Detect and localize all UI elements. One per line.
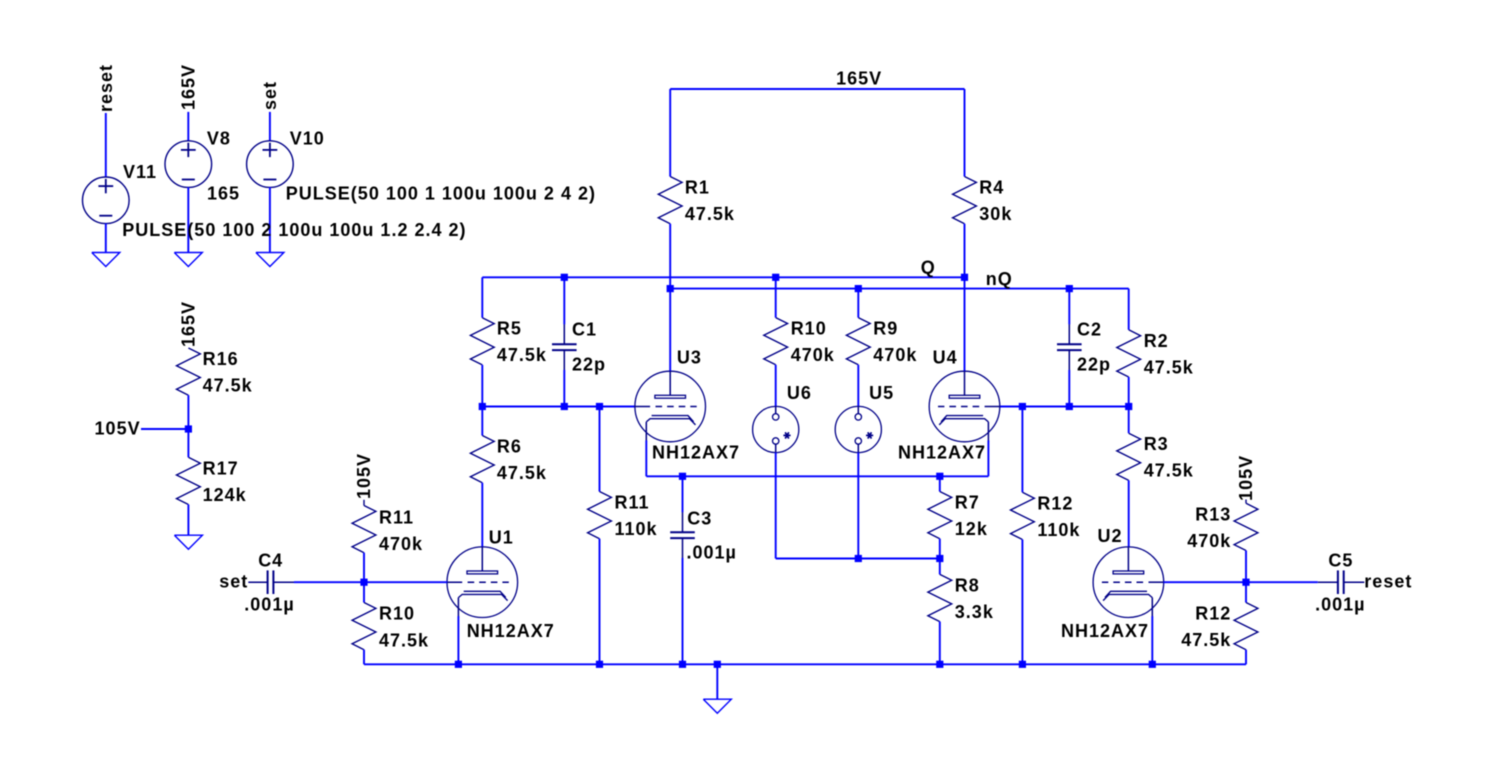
svg-text:165V: 165V <box>179 64 199 110</box>
svg-text:C5: C5 <box>1328 550 1353 570</box>
svg-text:47.5k: 47.5k <box>1144 461 1194 481</box>
svg-text:U6: U6 <box>787 383 812 403</box>
svg-text:NH12AX7: NH12AX7 <box>467 621 555 641</box>
svg-text:R9: R9 <box>873 319 898 339</box>
svg-text:30k: 30k <box>979 204 1012 224</box>
svg-text:R17: R17 <box>203 458 239 478</box>
svg-text:NH12AX7: NH12AX7 <box>1061 621 1149 641</box>
svg-text:C4: C4 <box>258 550 283 570</box>
svg-text:reset: reset <box>1364 571 1412 591</box>
svg-text:U4: U4 <box>933 348 958 368</box>
svg-text:R4: R4 <box>979 178 1004 198</box>
svg-text:R10: R10 <box>379 604 415 624</box>
svg-text:47.5k: 47.5k <box>1181 630 1231 650</box>
svg-text:Q: Q <box>921 258 936 278</box>
svg-text:.001µ: .001µ <box>687 543 737 563</box>
svg-text:110k: 110k <box>1037 520 1080 540</box>
svg-text:C3: C3 <box>687 509 712 529</box>
svg-text:R8: R8 <box>955 575 980 595</box>
svg-text:470k: 470k <box>379 534 423 554</box>
svg-text:R12: R12 <box>1037 493 1073 513</box>
svg-text:105V: 105V <box>95 418 141 438</box>
svg-text:C1: C1 <box>572 320 597 340</box>
svg-text:47.5k: 47.5k <box>497 463 547 483</box>
svg-text:47.5k: 47.5k <box>203 376 253 396</box>
svg-text:R12: R12 <box>1195 604 1231 624</box>
svg-text:U3: U3 <box>677 348 702 368</box>
svg-text:V10: V10 <box>290 129 325 149</box>
svg-text:R2: R2 <box>1144 331 1169 351</box>
svg-text:470k: 470k <box>873 345 917 365</box>
svg-text:R16: R16 <box>203 349 239 369</box>
svg-text:R3: R3 <box>1144 434 1169 454</box>
svg-text:NH12AX7: NH12AX7 <box>652 443 740 463</box>
svg-text:V11: V11 <box>123 162 157 182</box>
svg-text:reset: reset <box>96 64 116 112</box>
svg-text:U5: U5 <box>869 383 894 403</box>
svg-text:105V: 105V <box>354 453 374 499</box>
svg-text:V8: V8 <box>207 129 231 149</box>
svg-text:470k: 470k <box>791 345 835 365</box>
svg-text:R1: R1 <box>685 178 710 198</box>
svg-text:47.5k: 47.5k <box>379 631 429 651</box>
svg-text:22p: 22p <box>572 355 606 375</box>
svg-text:set: set <box>219 571 248 591</box>
svg-text:set: set <box>260 81 280 110</box>
svg-text:105V: 105V <box>1236 455 1256 501</box>
svg-text:470k: 470k <box>1187 531 1231 551</box>
svg-text:47.5k: 47.5k <box>497 345 547 365</box>
svg-text:NH12AX7: NH12AX7 <box>898 443 986 463</box>
svg-text:R5: R5 <box>497 319 522 339</box>
svg-text:.001µ: .001µ <box>244 594 294 614</box>
svg-text:110k: 110k <box>615 519 658 539</box>
svg-text:R11: R11 <box>615 493 650 513</box>
svg-text:47.5k: 47.5k <box>685 204 735 224</box>
svg-text:R6: R6 <box>497 437 522 457</box>
svg-text:47.5k: 47.5k <box>1144 357 1194 377</box>
svg-text:R13: R13 <box>1195 504 1231 524</box>
svg-text:R10: R10 <box>791 319 827 339</box>
svg-text:U2: U2 <box>1098 526 1123 546</box>
svg-text:3.3k: 3.3k <box>955 602 994 622</box>
svg-text:165V: 165V <box>179 301 199 347</box>
svg-text:PULSE(50 100 2 100u 100u 1.2 2: PULSE(50 100 2 100u 100u 1.2 2.4 2) <box>122 220 466 240</box>
svg-text:nQ: nQ <box>986 269 1013 289</box>
svg-text:165V: 165V <box>836 69 882 89</box>
svg-text:22p: 22p <box>1077 355 1111 375</box>
svg-text:124k: 124k <box>203 485 247 505</box>
svg-text:165: 165 <box>207 183 240 203</box>
svg-text:.001µ: .001µ <box>1315 594 1365 614</box>
svg-text:R11: R11 <box>379 507 414 527</box>
svg-text:C2: C2 <box>1077 320 1102 340</box>
svg-text:12k: 12k <box>955 519 988 539</box>
svg-text:U1: U1 <box>489 528 514 548</box>
svg-text:PULSE(50 100 1 100u 100u 2 4 2: PULSE(50 100 1 100u 100u 2 4 2) <box>286 183 596 203</box>
svg-text:R7: R7 <box>955 493 980 513</box>
